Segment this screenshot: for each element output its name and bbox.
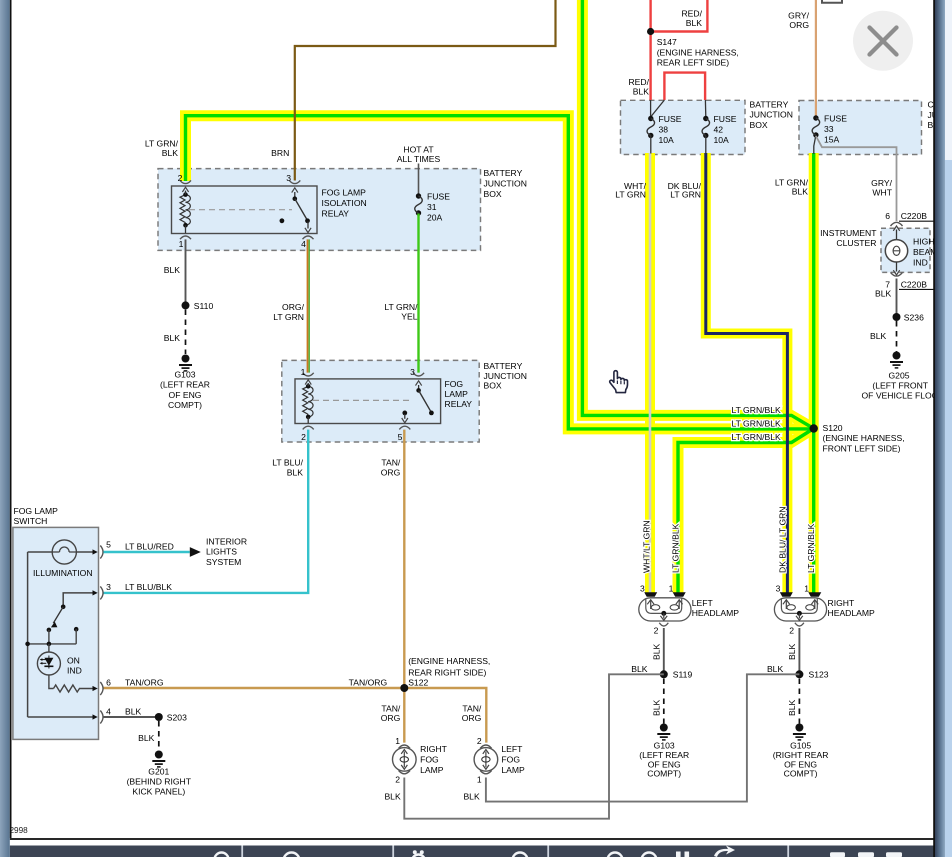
svg-text:FOG LAMP: FOG LAMP [14, 506, 59, 516]
svg-text:ORG: ORG [381, 467, 401, 477]
ON IND led [37, 644, 60, 675]
svg-text:S120: S120 [823, 423, 843, 433]
svg-text:BLK: BLK [787, 643, 797, 660]
ground G105 [793, 724, 806, 740]
svg-text:LT GRN: LT GRN [615, 189, 646, 199]
svg-text:FOG: FOG [420, 755, 439, 765]
svg-text:BOX: BOX [484, 189, 502, 199]
svg-text:WHT: WHT [872, 187, 892, 197]
instrument cluster high beam indicator [885, 226, 907, 275]
svg-text:20A: 20A [427, 213, 443, 223]
svg-text:2: 2 [654, 626, 659, 636]
svg-text:S123: S123 [809, 670, 829, 680]
svg-text:5: 5 [398, 432, 403, 442]
pin 2 isolation relay [180, 180, 191, 183]
svg-text:1: 1 [301, 367, 306, 377]
svg-text:BLK: BLK [792, 187, 809, 197]
svg-text:BRN: BRN [271, 148, 289, 158]
svg-text:2: 2 [395, 775, 400, 785]
splice S203 [155, 713, 163, 721]
svg-text:FRONT LEFT SIDE): FRONT LEFT SIDE) [823, 443, 901, 453]
splice S119 [660, 670, 668, 678]
svg-text:LEFT: LEFT [692, 598, 714, 608]
svg-text:TAN/ORG: TAN/ORG [349, 677, 388, 687]
svg-text:BLK: BLK [162, 148, 179, 158]
svg-text:(LEFT FRONT: (LEFT FRONT [872, 380, 928, 390]
ground G201 [152, 751, 165, 767]
svg-text:KICK PANEL): KICK PANEL) [132, 787, 185, 797]
svg-text:INSTRUMENT: INSTRUMENT [820, 228, 877, 238]
green core: S120 to left headlamp [678, 429, 814, 593]
svg-text:LT GRN/: LT GRN/ [384, 302, 418, 312]
svg-text:HOT AT: HOT AT [403, 144, 434, 154]
svg-text:6: 6 [106, 677, 111, 687]
toolbar separators [241, 846, 243, 857]
pin 5 internal wire with arrow [76, 551, 93, 553]
svg-text:S122: S122 [408, 677, 428, 687]
svg-text:FOG: FOG [501, 755, 520, 765]
green core: fuse 33 wire [812, 153, 815, 593]
svg-text:42: 42 [714, 125, 724, 135]
svg-text:BLK: BLK [384, 792, 401, 802]
svg-text:S110: S110 [194, 301, 214, 311]
svg-text:RED/: RED/ [681, 8, 702, 18]
right frame and scrollbar [933, 0, 935, 857]
pin 5 fog relay [399, 426, 410, 429]
svg-text:10A: 10A [714, 135, 730, 145]
svg-text:LT BLU/BLK: LT BLU/BLK [125, 582, 172, 592]
svg-text:3: 3 [776, 583, 781, 593]
svg-text:SWITCH: SWITCH [14, 516, 48, 526]
svg-text:31: 31 [427, 202, 437, 212]
connector 7 C220B [891, 272, 903, 276]
ground G103 (headlamp) [657, 724, 670, 740]
svg-text:(ENGINE HARNESS,: (ENGINE HARNESS, [823, 433, 905, 443]
bottom toolbar [10, 846, 935, 857]
svg-text:IND: IND [913, 257, 928, 267]
splice S120 [810, 424, 818, 432]
wire BLK S110 to G103 [185, 310, 187, 355]
left fog lamp [474, 745, 498, 774]
wire BLK S123 to G105 [798, 679, 800, 724]
svg-text:ON: ON [67, 655, 80, 665]
svg-text:BATTERY: BATTERY [750, 99, 789, 109]
svg-text:2: 2 [178, 173, 183, 183]
svg-text:FOG: FOG [445, 379, 464, 389]
wire: highlighted WHT/LT GRN fuse 38 to left headlamp pin 3 (yellow band) [645, 153, 655, 593]
illumination bulb [52, 540, 76, 564]
svg-text:3: 3 [410, 367, 415, 377]
svg-text:ILLUMINATION: ILLUMINATION [33, 568, 93, 578]
svg-text:COMPT): COMPT) [168, 400, 202, 410]
wire BLK S203 to G201 [158, 721, 160, 751]
wire BLK left fog lamp ground to S123 [486, 674, 800, 801]
svg-text:BLK: BLK [870, 331, 887, 341]
pin 3 isolation relay [289, 180, 300, 183]
white core: WHT/LT GRN wire [649, 153, 652, 593]
svg-text:G103: G103 [174, 370, 195, 380]
svg-text:15A: 15A [824, 135, 840, 145]
svg-text:2: 2 [301, 432, 306, 442]
svg-text:G103: G103 [654, 740, 675, 750]
navy core: DK BLU/LT GRN wire [706, 153, 788, 593]
svg-text:LT GRN/: LT GRN/ [145, 138, 179, 148]
battery junction box 3 (fuse 38 / fuse 42) [621, 100, 746, 154]
switch left rail [27, 552, 29, 717]
pin 1 fog relay [303, 373, 314, 376]
toolbar icon fragments [215, 853, 657, 857]
fuse 42 10A [702, 100, 737, 154]
svg-text:JUNCTION: JUNCTION [750, 110, 793, 120]
svg-text:33: 33 [824, 124, 834, 134]
wire BLK cluster to S236 [896, 279, 898, 318]
svg-text:IND: IND [67, 665, 82, 675]
svg-text:4: 4 [301, 239, 306, 249]
wire BLK right fog lamp ground to S119 [404, 674, 664, 818]
fog lamp isolation relay U1 [172, 186, 318, 234]
svg-text:ORG: ORG [789, 20, 809, 30]
svg-text:ORG: ORG [462, 713, 482, 723]
svg-text:ALL TIMES: ALL TIMES [397, 154, 441, 164]
pin 1 isolation relay [180, 236, 191, 239]
fuse 31 20A [415, 164, 450, 223]
svg-text:ORG/: ORG/ [282, 302, 305, 312]
svg-text:COMPT): COMPT) [647, 769, 681, 779]
svg-text:1: 1 [669, 583, 674, 593]
wire BLK S119 to G103 [663, 679, 665, 724]
svg-text:C220B: C220B [901, 211, 928, 221]
ground G103 (left) [179, 355, 192, 371]
svg-text:G205: G205 [888, 370, 909, 380]
svg-text:BLK: BLK [652, 643, 662, 660]
mouse cursor [610, 371, 628, 393]
pin 3 internal wire and toggle switch [63, 593, 93, 607]
svg-text:S236: S236 [904, 312, 924, 322]
svg-text:BLK: BLK [767, 664, 784, 674]
svg-text:RIGHT: RIGHT [828, 598, 855, 608]
svg-text:JUNCTION: JUNCTION [484, 179, 527, 189]
svg-text:HIGH: HIGH [913, 236, 934, 246]
svg-text:LT BLU/: LT BLU/ [272, 458, 303, 468]
svg-text:LT GRN/BLK: LT GRN/BLK [671, 523, 681, 573]
pin 2 fog relay [303, 426, 314, 429]
svg-text:1: 1 [179, 239, 184, 249]
svg-text:G201: G201 [148, 767, 169, 777]
instrument cluster box [881, 228, 930, 272]
svg-text:FUSE: FUSE [824, 114, 847, 124]
svg-text:LT GRN/BLK: LT GRN/BLK [806, 523, 816, 573]
svg-text:3: 3 [106, 582, 111, 592]
svg-text:BATTERY: BATTERY [484, 168, 523, 178]
svg-text:FOG LAMP: FOG LAMP [322, 187, 367, 197]
svg-text:LT GRN/BLK: LT GRN/BLK [731, 405, 781, 415]
svg-text:G105: G105 [790, 740, 811, 750]
left headlamp [639, 592, 691, 621]
svg-text:OF ENG: OF ENG [169, 390, 202, 400]
wire LT GRN/YEL fuse 31 to fog relay pin 3 [417, 214, 419, 373]
connector fragment top right [822, 0, 842, 3]
wire BLK right headlamp to S123 [798, 628, 800, 674]
svg-text:1: 1 [477, 775, 482, 785]
splice S122 [400, 684, 408, 692]
svg-text:S147: S147 [657, 37, 677, 47]
svg-text:BLK: BLK [652, 699, 662, 716]
svg-text:SYSTEM: SYSTEM [206, 557, 241, 567]
svg-text:BLK: BLK [463, 792, 480, 802]
pin 4 isolation relay [303, 236, 314, 239]
wire LT BLU/RED to interior lights [104, 551, 190, 553]
svg-text:RIGHT: RIGHT [420, 744, 447, 754]
svg-text:LAMP: LAMP [445, 389, 469, 399]
svg-text:BLK: BLK [787, 699, 797, 716]
svg-text:BLK: BLK [631, 664, 648, 674]
svg-text:LT GRN: LT GRN [273, 312, 304, 322]
svg-text:(ENGINE HARNESS,: (ENGINE HARNESS, [657, 48, 739, 58]
wire BRN from isolation relay pin 3 to top [295, 0, 556, 181]
svg-text:2: 2 [789, 626, 794, 636]
svg-text:BOX: BOX [750, 120, 768, 130]
svg-text:LT GRN/BLK: LT GRN/BLK [731, 432, 781, 442]
svg-text:LT GRN: LT GRN [670, 189, 701, 199]
junction box 4 (fuse 33) [799, 101, 922, 155]
wire BLK relay pin 1 to S110 [185, 239, 187, 305]
wire TAN/ORG fog relay pin 5 to S122 and fog lamps [403, 430, 405, 743]
svg-text:S119: S119 [673, 670, 693, 680]
right fog lamp [393, 745, 417, 774]
svg-text:BLK: BLK [138, 733, 155, 743]
svg-text:LEFT: LEFT [501, 744, 523, 754]
wire: highlighted LT GRN/BLK from S120 to left headlamp pin 1 (yellow band) [678, 429, 814, 593]
svg-text:CLUSTER: CLUSTER [836, 238, 876, 248]
svg-text:BOX: BOX [484, 381, 502, 391]
fuse 38 10A [647, 100, 682, 154]
svg-text:TAN/: TAN/ [381, 458, 401, 468]
svg-text:TAN/: TAN/ [462, 703, 482, 713]
left window strip [0, 0, 10, 857]
wire BLK switch pin 4 to S203 [104, 716, 159, 718]
svg-text:1: 1 [395, 736, 400, 746]
svg-text:RELAY: RELAY [445, 399, 473, 409]
svg-text:WHT/LT GRN: WHT/LT GRN [642, 520, 652, 573]
close button [853, 11, 913, 71]
wire BLK left headlamp to S119 [663, 628, 665, 674]
battery junction box 1 (isolation relay + fuse 31) [158, 169, 481, 251]
svg-text:YEL: YEL [401, 311, 417, 321]
wire GRY/WHT fuse 33 to instrument cluster [816, 136, 897, 221]
right headlamp [774, 592, 826, 621]
svg-text:ORG: ORG [381, 713, 401, 723]
svg-text:2: 2 [477, 736, 482, 746]
svg-text:BLK: BLK [164, 333, 181, 343]
svg-text:10A: 10A [659, 135, 675, 145]
fog lamp switch box [13, 527, 99, 739]
svg-text:2998: 2998 [10, 826, 29, 835]
svg-text:1: 1 [804, 583, 809, 593]
wire: highlighted LT GRN/BLK fuse 33 through S120 to right headlamp pin 1 (yellow band) [809, 153, 819, 593]
bottom frame line [10, 838, 934, 840]
svg-text:LT GRN/BLK: LT GRN/BLK [731, 419, 781, 429]
svg-text:DK BLU/ LT GRN: DK BLU/ LT GRN [778, 506, 788, 573]
svg-text:FUSE: FUSE [659, 114, 682, 124]
svg-text:BLK: BLK [287, 467, 304, 477]
svg-text:INTERIOR: INTERIOR [206, 536, 247, 546]
svg-text:ISOLATION: ISOLATION [322, 198, 367, 208]
svg-text:RELAY: RELAY [322, 208, 350, 218]
svg-text:BLK: BLK [875, 289, 892, 299]
svg-text:38: 38 [659, 125, 669, 135]
splice S123 [795, 670, 803, 678]
svg-text:BLK: BLK [686, 18, 703, 28]
svg-text:RED/: RED/ [628, 77, 649, 87]
wire BLK S236 to G205 [896, 321, 898, 352]
splice S236 [893, 313, 901, 321]
switch pin connectors [100, 546, 103, 559]
svg-text:BLK: BLK [125, 707, 142, 717]
svg-text:(BEHIND RIGHT: (BEHIND RIGHT [127, 777, 192, 787]
svg-text:6: 6 [885, 211, 890, 221]
svg-text:3: 3 [640, 583, 645, 593]
svg-text:LAMP: LAMP [501, 765, 525, 775]
green core: relay pin 2 wire [186, 116, 813, 429]
svg-text:HEADLAMP: HEADLAMP [828, 608, 876, 618]
svg-text:TAN/: TAN/ [381, 703, 401, 713]
resistor to pin 6 [49, 675, 54, 689]
svg-text:S203: S203 [167, 712, 187, 722]
svg-text:FUSE: FUSE [714, 114, 737, 124]
svg-text:REAR RIGHT SIDE): REAR RIGHT SIDE) [408, 667, 486, 677]
wire GRY/ORG from top to fuse 33 [815, 0, 817, 118]
fuse 33 15A [812, 114, 847, 154]
svg-text:JUNCTION: JUNCTION [484, 371, 527, 381]
svg-text:BLK: BLK [164, 265, 181, 275]
svg-text:5: 5 [106, 539, 111, 549]
svg-text:(ENGINE HARNESS,: (ENGINE HARNESS, [408, 656, 490, 666]
wire: highlighted LT GRN/BLK from isolation relay pin 2 to S120 (yellow band) [186, 116, 812, 429]
svg-text:GRY/: GRY/ [788, 10, 809, 20]
ground G205 [890, 352, 903, 368]
wire RED/BLK staple to fuse 42 [664, 73, 705, 100]
svg-text:LT BLU/RED: LT BLU/RED [125, 541, 174, 551]
svg-text:HEADLAMP: HEADLAMP [692, 608, 740, 618]
battery junction box 2 (fog lamp relay) [282, 360, 479, 442]
wire: highlighted DK BLU/LT GRN fuse 42 to right headlamp pin 3 (yellow band) [706, 153, 788, 593]
svg-text:4: 4 [106, 706, 111, 716]
wire LT BLU/BLK fog relay pin 2 to switch pin 3 [104, 430, 309, 593]
svg-text:LAMP: LAMP [420, 765, 444, 775]
pin 3 fog relay [413, 373, 424, 376]
svg-text:TAN/ORG: TAN/ORG [125, 678, 164, 688]
svg-text:3: 3 [286, 173, 291, 183]
svg-text:REAR LEFT SIDE): REAR LEFT SIDE) [657, 58, 730, 68]
fog lamp relay U2 [295, 379, 441, 424]
svg-text:BATTERY: BATTERY [484, 361, 523, 371]
wire RED/BLK from top with splice S147 [647, 0, 707, 100]
svg-text:COMPT): COMPT) [784, 769, 818, 779]
splice S110 [182, 301, 190, 309]
wire ORG/LT GRN relay pin 4 to fog relay pin 1 [307, 239, 309, 372]
svg-text:C220B: C220B [901, 279, 928, 289]
green core: top wire to S120 [582, 0, 813, 429]
wire: highlighted LT GRN/BLK from top of page to S120 (yellow band) [582, 0, 813, 429]
pin 4 internal wire [28, 716, 94, 718]
svg-text:FUSE: FUSE [427, 192, 450, 202]
svg-text:LIGHTS: LIGHTS [206, 547, 237, 557]
svg-text:BLK: BLK [633, 86, 650, 96]
svg-text:(LEFT REAR: (LEFT REAR [160, 380, 210, 390]
